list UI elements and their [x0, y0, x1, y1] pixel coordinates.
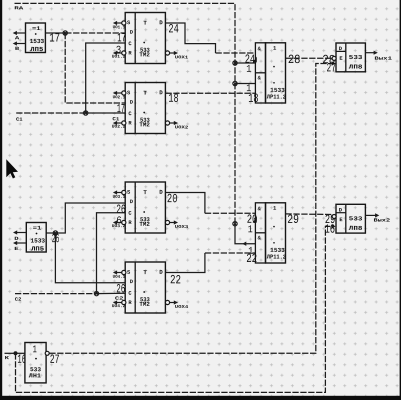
svg-text:24: 24 [245, 53, 255, 67]
XOR gate U2 1533ЛП5 body [26, 223, 46, 253]
junction net C2 at (96.5,293.6) [94, 291, 98, 295]
bus buffer U6 533ЛП8 body [336, 204, 365, 233]
wire net 16/K: junction at inverter input, down, along bottom, up at x=325.4 to buffer U6 [16, 226, 332, 392]
output port Вых2 at buffer U6 [365, 213, 390, 223]
svg-text:RA: RA [14, 5, 23, 11]
svg-text:UОХ2: UОХ2 [175, 125, 189, 130]
wire net 28: AOI U3 output to buffer U5 E pin [286, 57, 333, 59]
input port A at XOR U1 [13, 31, 26, 41]
svg-text:D: D [159, 189, 163, 196]
output port Вых1 at buffer U5 [365, 51, 392, 62]
svg-text:C1: C1 [112, 116, 119, 122]
svg-text:28: 28 [288, 53, 301, 67]
junction net 26 at (55.4,233) [53, 231, 57, 235]
svg-text:20: 20 [167, 192, 178, 206]
input port UО1.1 at FF1 S pin [113, 21, 126, 30]
svg-text:27: 27 [50, 353, 60, 367]
svg-text:ЛН1: ЛН1 [29, 372, 42, 379]
wire net 17 branch: down at x=65.2 then right to FF2 D pin [65, 33, 125, 103]
svg-text:ЛП8: ЛП8 [349, 225, 363, 232]
output port UОХ1 at FF1 inverted output [170, 51, 189, 61]
wire net RA/1 main run: top horizontal then long vertical at x=235 [15, 3, 236, 223]
svg-text:26: 26 [116, 282, 125, 296]
svg-text:17: 17 [117, 102, 125, 116]
output port UОХ3 at FF3 inverted output [170, 220, 189, 230]
svg-text:D: D [14, 236, 19, 242]
svg-text:ТМ2: ТМ2 [139, 121, 150, 128]
arrowhead net 27 at buffer U5 pin [332, 61, 336, 65]
FF3 inverted output bubble [165, 220, 169, 224]
svg-text:UО2.2: UО2.2 [112, 125, 126, 130]
wire net 20: FF3 Q output to AOI U4 pin1 [165, 193, 205, 214]
svg-text:A: A [15, 35, 20, 41]
svg-text:UОХ4: UОХ4 [175, 305, 189, 310]
junction net C1 at (85.7,113) [84, 111, 88, 115]
AND-OR-INVERT gate U4 1533ЛР11.2 body [255, 203, 286, 263]
svg-text:UОХ1: UОХ1 [175, 55, 189, 60]
input port UО3.2 at FF3 R pin [112, 220, 126, 229]
D flip-flop FF1 533ТМ2 body [125, 13, 165, 64]
svg-text:T: T [143, 269, 147, 276]
U5 E input inversion bubble [332, 56, 336, 60]
input port K wire and label at left edge [5, 353, 16, 361]
svg-text:UО2.1: UО2.1 [113, 95, 126, 100]
svg-text:ТМ2: ТМ2 [139, 301, 150, 308]
svg-text:ЛП5: ЛП5 [31, 246, 44, 253]
wire net C2: from left edge to FF4 C pin [15, 293, 97, 295]
mouse cursor [6, 159, 18, 178]
arrowhead on net 1 branch at AOI U4 pin3 [242, 242, 246, 246]
svg-text:UО4.2: UО4.2 [112, 304, 126, 309]
FF2 S input inversion bubble [122, 91, 126, 95]
pin-entry mark net 20 at AOI U4 pin1 [253, 217, 257, 223]
pin-entry mark net 24 at AOI U3 pin1 [253, 57, 257, 63]
svg-text:=1: =1 [32, 25, 41, 32]
svg-text:ТМ2: ТМ2 [139, 221, 150, 228]
svg-text:D: D [159, 89, 163, 96]
inverter U7 output inversion bubble [45, 351, 49, 355]
junction net1/net RA at (235,223.7) [233, 222, 237, 226]
wire net 18: FF2 Q output to AOI U3 pin4 [165, 92, 255, 94]
svg-text:Вых1: Вых1 [374, 56, 392, 62]
input port UО3.1 at FF3 S pin [113, 190, 126, 199]
U6 E input inversion bubble [332, 215, 336, 219]
svg-text:18: 18 [168, 92, 178, 106]
wire net 1 branch to AOI U3 pin3 (y=83.5) [235, 83, 255, 85]
inverter U7 input wire stub [16, 352, 25, 354]
svg-text:17: 17 [49, 32, 60, 46]
wire net 26 branch: down at x=55.4 then right to FF4 D pin [55, 233, 125, 283]
inverter U7 533ЛН1 body [25, 343, 46, 383]
svg-text:UО3.2: UО3.2 [112, 224, 126, 229]
svg-text:24: 24 [168, 22, 178, 36]
D flip-flop FF3 533ТМ2 body [125, 182, 165, 233]
svg-text:T: T [143, 90, 147, 97]
svg-text:UО4.1: UО4.1 [113, 275, 126, 280]
output port UОХ4 at FF4 inverted output [170, 300, 189, 310]
input port UО2.2 at FF2 R pin [112, 121, 126, 130]
svg-text:D: D [159, 269, 163, 276]
svg-text:D: D [159, 19, 163, 26]
FF1 inverted output bubble [165, 51, 169, 55]
svg-text:533: 533 [349, 54, 363, 61]
input port B at XOR U1 [13, 41, 26, 52]
FF1 S input inversion bubble [122, 21, 126, 25]
svg-text:C2: C2 [15, 297, 22, 303]
wire net 29: AOI U4 output to buffer U6 E pin [286, 213, 333, 216]
svg-text:ТМ2: ТМ2 [139, 51, 150, 58]
FF4 S input inversion bubble [122, 270, 126, 274]
svg-text:UО1.1: UО1.1 [113, 25, 126, 30]
svg-text:1533: 1533 [30, 38, 45, 45]
input port UО4.2 at FF4 R pin [112, 300, 126, 309]
FF2 R input inversion bubble [122, 121, 126, 125]
svg-text:ЛР11.2: ЛР11.2 [267, 94, 287, 101]
svg-text:E: E [14, 246, 19, 252]
svg-text:B: B [15, 46, 20, 52]
svg-text:ЛР11.2: ЛР11.2 [267, 254, 287, 261]
svg-text:T: T [143, 20, 147, 27]
FF3 R input inversion bubble [122, 220, 126, 224]
svg-text:29: 29 [287, 213, 299, 227]
bus buffer U5 533ЛП8 body [336, 43, 365, 72]
FF1 R input inversion bubble [122, 51, 126, 55]
svg-text:16: 16 [324, 223, 335, 237]
svg-text:ЛП8: ЛП8 [349, 64, 363, 71]
svg-text:18: 18 [248, 92, 258, 106]
wire net C1 branch: up at x=85.7 then right to FF1 C pin [86, 43, 126, 113]
junction net 17 at (65.2,33) [63, 31, 67, 35]
FF3 S input inversion bubble [122, 190, 126, 194]
svg-text:1: 1 [33, 344, 37, 356]
FF4 R input inversion bubble [122, 300, 126, 304]
wire net 1 branch to AOI U4 pin3 (down then right at y=243.7) [235, 224, 255, 244]
wire net 22: FF4 Q output up to AOI U4 pin4 [165, 253, 205, 273]
svg-text:UО1.2: UО1.2 [112, 55, 126, 60]
junction net 16 at inverter input (15.5,353.3) [14, 351, 18, 355]
wire net C1: from left edge to FF2 C pin [16, 112, 86, 114]
wire net 17: XOR U1 output to FF1 D pin [45, 32, 65, 34]
wire net 1 branch to AOI U3 pin2 (y=63) [235, 62, 255, 64]
D flip-flop FF2 533ТМ2 body [125, 83, 165, 134]
svg-text:26: 26 [116, 203, 125, 217]
XOR gate U1 1533ЛП5 body [26, 23, 46, 53]
svg-text:UОХ3: UОХ3 [175, 225, 189, 230]
svg-text:C1: C1 [16, 117, 23, 123]
wire net C2 branch: up at x=96.5 then right to FF3 C pin [97, 213, 125, 294]
svg-text:27: 27 [326, 61, 335, 75]
input port E at XOR U2 [13, 241, 26, 252]
svg-text:T: T [143, 189, 147, 196]
wire net 26: XOR U2 output, junction and branch to FF3 D pin [46, 232, 55, 234]
output port UОХ2 at FF2 inverted output [170, 121, 189, 131]
D flip-flop FF4 533ТМ2 body [125, 262, 165, 313]
svg-text:26: 26 [52, 232, 60, 246]
svg-text:533: 533 [349, 215, 363, 222]
wire net 27: inverter U7 output, right along y=353.2, up at x=315.8 to buffer U5 [49, 64, 331, 354]
input port UО2.1 at FF2 S pin [113, 91, 126, 100]
svg-text:К: К [5, 355, 10, 361]
FF4 inverted output bubble [165, 300, 169, 304]
svg-text:22: 22 [170, 273, 181, 287]
svg-text:=1: =1 [33, 225, 42, 232]
junction net1/net RA at (235,63) [233, 61, 237, 65]
FF2 inverted output bubble [165, 121, 169, 125]
arrowhead net 16 at buffer U6 pin [332, 224, 336, 228]
input port UО4.1 at FF4 S pin [113, 270, 126, 279]
input port UО1.2 at FF1 R pin [112, 51, 126, 60]
AND-OR-INVERT gate U3 1533ЛР11.2 body [255, 43, 286, 103]
svg-text:Вых2: Вых2 [373, 218, 390, 224]
wire net 24: FF1 Q output to AOI U3 pin1 [165, 23, 215, 53]
svg-text:1533: 1533 [30, 238, 45, 245]
input port D at XOR U2 [13, 230, 26, 242]
svg-text:UО3.1: UО3.1 [113, 195, 126, 200]
svg-text:ЛП5: ЛП5 [30, 46, 43, 53]
junction net1/net RA at (235,83.5) [233, 81, 237, 85]
